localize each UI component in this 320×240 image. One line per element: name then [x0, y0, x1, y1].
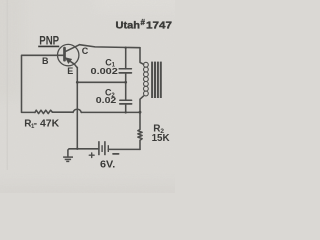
svg-text:- 47K: - 47K — [34, 118, 60, 129]
svg-text:1747: 1747 — [146, 20, 173, 31]
svg-text:B: B — [42, 56, 49, 66]
emitter arrow — [66, 58, 72, 64]
wire right side down to transformer — [140, 48, 144, 65]
wire middle to C2 — [125, 82, 127, 100]
node R2 top junction — [139, 111, 142, 114]
svg-text:0.002: 0.002 — [91, 67, 119, 76]
minus sign — [113, 153, 119, 155]
faint column rule — [6, 0, 8, 170]
transformer T1 secondary winding block — [152, 62, 161, 98]
plus sign — [89, 153, 94, 158]
svg-text:0.02: 0.02 — [96, 96, 117, 105]
transformer T1 primary coil — [144, 62, 149, 96]
node top cap branch — [125, 47, 127, 49]
resistor R2 — [138, 112, 142, 149]
node C2 bottom junction — [125, 111, 127, 113]
wire R1 to hop — [52, 111, 73, 113]
svg-text:E: E — [67, 66, 73, 76]
svg-text:C: C — [82, 46, 89, 56]
resistor R1 — [35, 110, 52, 113]
ground — [63, 157, 73, 161]
battery B1 6V — [99, 141, 108, 155]
node emitter-middle junction — [76, 81, 79, 84]
capacitor C2 — [120, 99, 132, 101]
wire top (collector rail) — [80, 45, 141, 48]
wire C1 to middle — [125, 73, 127, 82]
wire bottom right rail — [108, 148, 140, 150]
collector lead — [65, 45, 80, 52]
wire middle (emitter to caps) — [77, 81, 125, 83]
svg-text:#: # — [141, 18, 146, 27]
wire hop to R2 junction — [81, 111, 140, 113]
transistor Q1 PNP — [57, 44, 78, 65]
wire base loop: B wire left and down — [22, 55, 58, 112]
label Utah #1747 — [116, 18, 173, 31]
svg-text:Utah: Utah — [116, 20, 141, 31]
svg-text:PNP: PNP — [39, 33, 59, 47]
capacitor C1 — [119, 68, 131, 70]
wire hop over emitter line — [73, 109, 81, 112]
wire bottom left rail — [68, 149, 99, 157]
wire coil bottom to R2 — [140, 96, 144, 112]
node C1-C2 junction — [124, 81, 127, 84]
svg-text:15K: 15K — [152, 132, 170, 144]
wire cap branch top — [125, 48, 127, 69]
node ground junction — [76, 148, 78, 150]
wire emitter down — [76, 67, 78, 148]
svg-text:6V.: 6V. — [100, 159, 115, 170]
emitter lead — [65, 58, 78, 68]
wire C2 to bottom rail — [125, 104, 127, 113]
